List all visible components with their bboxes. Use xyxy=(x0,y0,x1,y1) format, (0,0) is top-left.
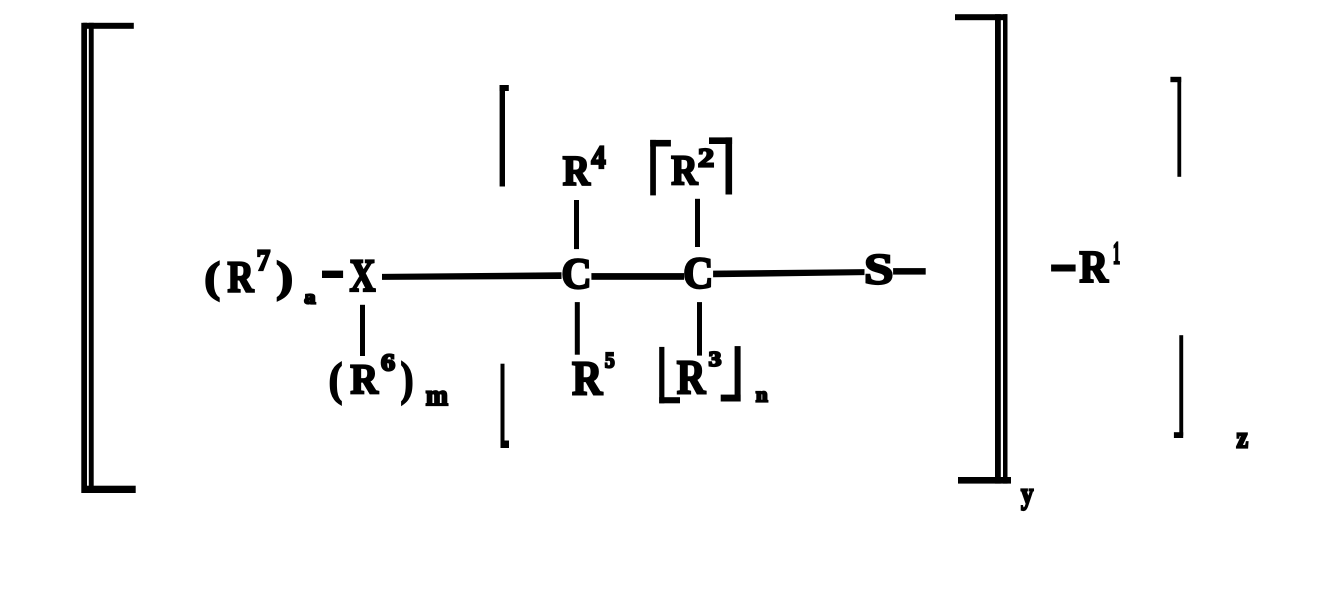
svg-text:(: ( xyxy=(329,355,342,405)
svg-text:(: ( xyxy=(205,253,221,301)
svg-text:R: R xyxy=(572,352,603,405)
dash bond (R7)a to X xyxy=(322,271,343,278)
svg-text:C: C xyxy=(561,251,591,299)
svg-text:y: y xyxy=(1021,477,1033,511)
bond R2 to C2 xyxy=(695,199,700,247)
bond C2 to R3 xyxy=(697,302,702,356)
svg-text:S: S xyxy=(864,246,893,293)
svg-text:C: C xyxy=(683,249,713,297)
svg-text:6: 6 xyxy=(381,348,395,376)
bond C2 to S xyxy=(713,269,864,277)
right outer double bracket xyxy=(955,14,1011,483)
svg-text:X: X xyxy=(349,250,375,301)
upper bracket around R2 xyxy=(650,137,732,195)
svg-text:R: R xyxy=(563,147,591,195)
svg-text:5: 5 xyxy=(605,349,615,372)
svg-text:a: a xyxy=(304,288,315,308)
svg-text:2: 2 xyxy=(698,144,714,173)
svg-text:1: 1 xyxy=(1113,237,1120,272)
svg-text:n: n xyxy=(756,382,768,406)
svg-text:R: R xyxy=(677,350,707,405)
svg-text:R: R xyxy=(671,147,698,194)
svg-text:): ) xyxy=(401,354,414,406)
left outer double bracket xyxy=(81,23,135,493)
svg-text:3: 3 xyxy=(709,348,722,372)
lower bracket around R3 xyxy=(659,346,740,403)
inner left bracket lower segment xyxy=(501,364,510,448)
bond X to C1 xyxy=(382,272,562,280)
svg-text:z: z xyxy=(1236,421,1248,455)
thin right bracket lower segment xyxy=(1174,335,1183,438)
svg-text:7: 7 xyxy=(257,245,271,277)
svg-text:): ) xyxy=(276,254,293,301)
svg-text:R: R xyxy=(227,252,254,301)
svg-text:4: 4 xyxy=(591,139,605,175)
svg-text:m: m xyxy=(426,380,448,413)
dash bond to R1 xyxy=(1051,265,1076,272)
bond X to (R6)m xyxy=(360,305,365,356)
inner left bracket upper segment xyxy=(500,85,509,187)
thin right bracket upper segment xyxy=(1170,77,1181,177)
bond R4 to C1 xyxy=(574,200,579,249)
bond C1 to R5 xyxy=(575,302,580,355)
svg-text:R: R xyxy=(1079,243,1109,293)
svg-text:R: R xyxy=(350,356,378,403)
dash bond after S xyxy=(893,268,926,275)
bond C1 to C2 xyxy=(591,273,684,280)
